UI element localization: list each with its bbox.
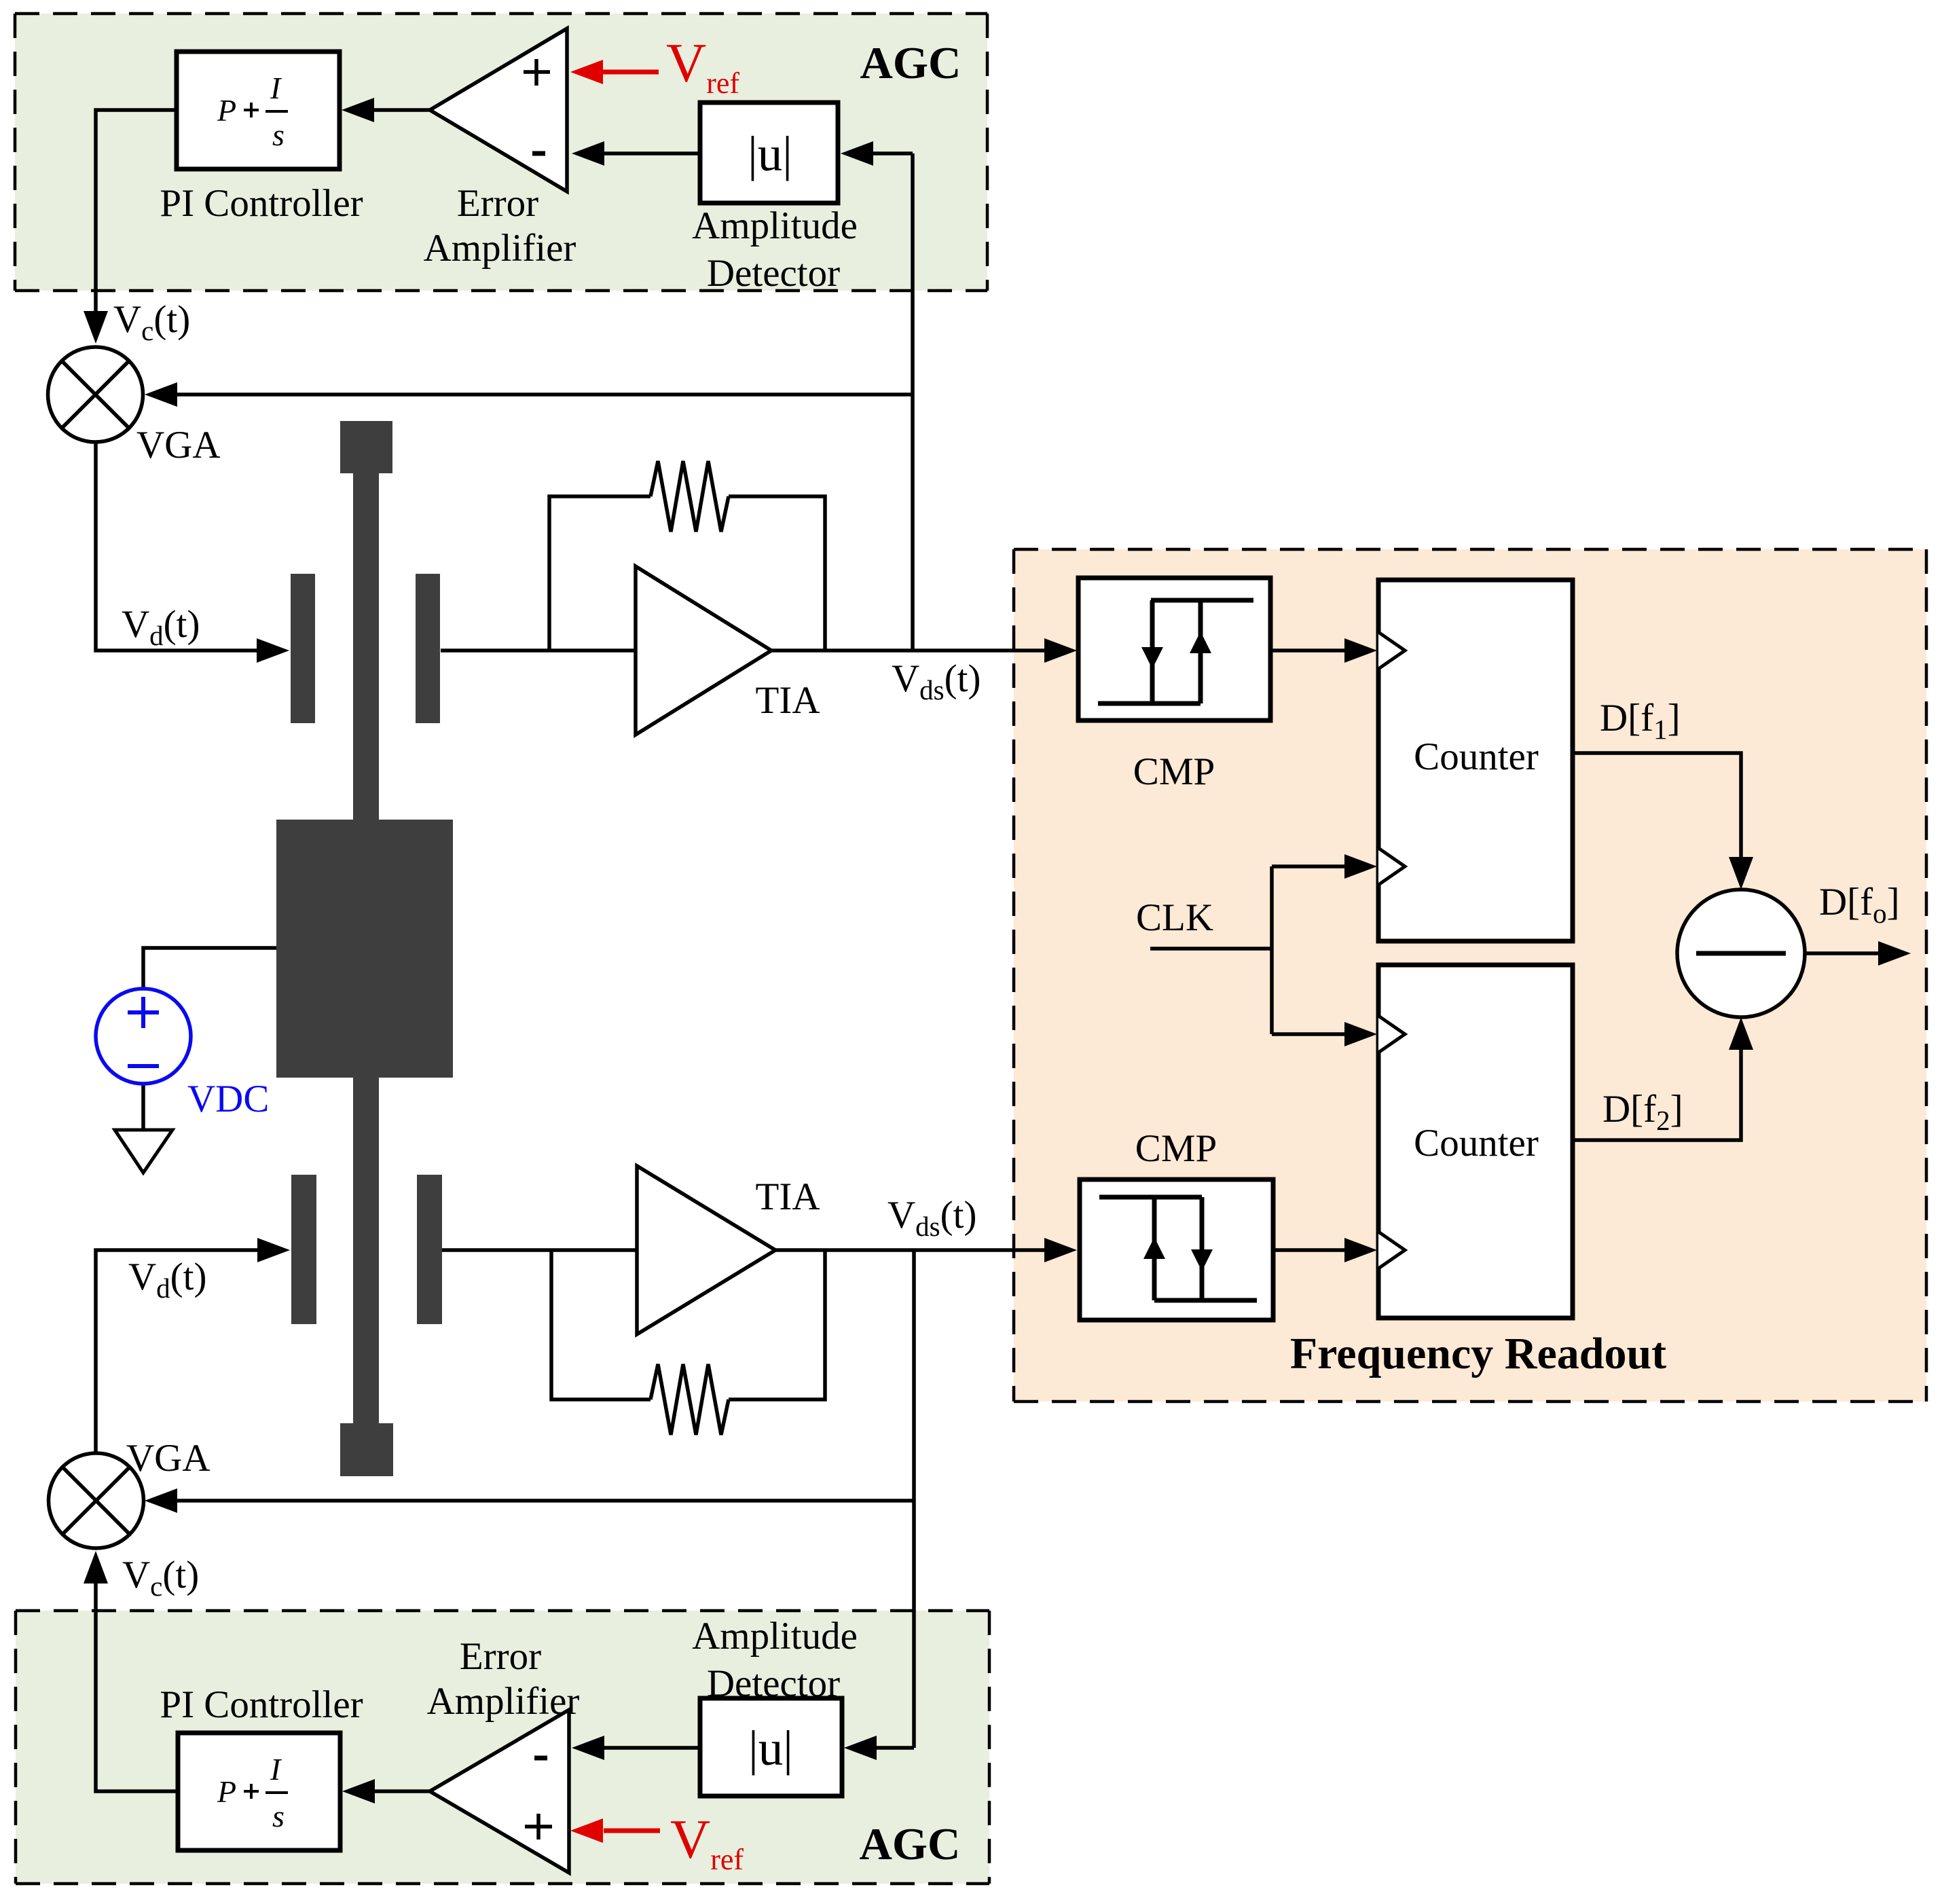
CMP2 comparator box — [1080, 1179, 1273, 1320]
arrowhead TIA1 out into CMP1 — [1044, 638, 1077, 663]
wire TIA2 output to CMP2 — [775, 1248, 1044, 1252]
Vref2 red arrow — [570, 1818, 660, 1843]
arrowhead into VGA2 feedback — [145, 1488, 177, 1513]
svg-text:CMP: CMP — [1135, 1127, 1217, 1170]
error amplifier A2 — [430, 1710, 569, 1873]
A2 minus input sign — [534, 1756, 547, 1761]
svg-text:VDC: VDC — [187, 1078, 269, 1120]
PI2 formula P + I/s — [217, 1752, 288, 1833]
arrowhead Vc(t) into VGA1 — [84, 311, 108, 344]
arrowhead into |u|2 — [844, 1736, 877, 1760]
wire CLK to counter2 — [1272, 1032, 1344, 1036]
AGC block top: dashed green box — [15, 14, 987, 291]
wire D[f2] to subtractor — [1573, 1050, 1741, 1140]
arrowhead Vd(t) into bottom electrode — [257, 1238, 290, 1262]
svg-text:P: P — [217, 93, 236, 128]
resistor R1 zigzag — [651, 461, 729, 532]
wire CMP2 output to counter2 clk — [1273, 1248, 1344, 1252]
resistor R2 zigzag — [651, 1364, 729, 1435]
wire TIA1 feedback left — [549, 496, 651, 651]
arrowhead CMP2 out into counter2 — [1344, 1238, 1377, 1262]
wire TIA1 feedback right — [729, 496, 825, 651]
wire CMP1 output to counter1 clk — [1270, 648, 1344, 653]
error amplifier A1 — [430, 29, 567, 191]
wire TIA2 feedback left — [551, 1250, 651, 1399]
CMP1 hysteresis symbol — [1098, 600, 1253, 703]
svg-text:s: s — [272, 117, 285, 152]
svg-text:TIA: TIA — [756, 679, 820, 722]
wire sense electrode to TIA2 input — [442, 1248, 637, 1252]
wire D[f1] to subtractor — [1573, 753, 1741, 857]
subtractor node — [1677, 890, 1805, 1017]
svg-text:D[f1]: D[f1] — [1600, 697, 1681, 745]
arrowhead D[fo] output — [1878, 941, 1911, 966]
svg-text:CLK: CLK — [1136, 896, 1213, 939]
arrowhead CLK into counter1 — [1344, 854, 1377, 879]
arrowhead into error amp A1 - input — [572, 141, 604, 166]
wire PI1 output to VGA1 — [96, 110, 177, 311]
A2 plus input sign — [525, 1814, 552, 1839]
svg-text:VGA: VGA — [126, 1437, 210, 1480]
svg-text:Amplifier: Amplifier — [427, 1680, 580, 1723]
arrowhead into PI2 — [342, 1779, 375, 1804]
svg-text:Amplitude: Amplitude — [692, 1615, 858, 1658]
amplitude detector |u|1 box — [700, 103, 838, 203]
counter1 clk pin 2 — [1378, 848, 1405, 885]
wire VGA2 feedback input — [177, 1499, 914, 1503]
svg-text:AGC: AGC — [860, 1819, 961, 1869]
arrowhead Vc(t) into VGA2 — [84, 1551, 108, 1583]
svg-text:PI Controller: PI Controller — [160, 1683, 363, 1726]
arrowhead Vd(t) into top electrode — [257, 638, 289, 663]
svg-text:D[fo]: D[fo] — [1819, 881, 1900, 929]
PI1 formula P + I/s — [217, 71, 288, 152]
wire |u|2 input — [877, 1746, 914, 1750]
ground symbol — [115, 1130, 172, 1173]
counter2 clk pin 2 — [1378, 1232, 1405, 1268]
bottom drive electrode (left) — [291, 1175, 316, 1324]
counter1 clk pin 1 — [1378, 632, 1405, 669]
svg-text:I: I — [270, 71, 282, 105]
svg-text:TIA: TIA — [756, 1175, 820, 1218]
arrowhead into VGA1 feedback — [145, 382, 177, 407]
counter1 box — [1378, 580, 1573, 941]
svg-text:Amplitude: Amplitude — [692, 204, 858, 247]
MEMS beam — [353, 448, 379, 1446]
wire |u|2 output to error amp - input — [604, 1746, 700, 1750]
wire vertical bus node Vds2 — [912, 1250, 916, 1748]
wire sense electrode to TIA1 input — [441, 648, 636, 653]
wire CLK to counter1 — [1272, 864, 1344, 868]
svg-text:Detector: Detector — [707, 1662, 840, 1705]
VGA2 multiplier — [49, 1453, 144, 1548]
svg-text:VGA: VGA — [136, 424, 221, 466]
arrowhead into |u|1 — [841, 141, 873, 166]
svg-text:Frequency Readout: Frequency Readout — [1290, 1329, 1666, 1378]
CMP2 hysteresis symbol — [1099, 1197, 1257, 1300]
arrowhead D[f2] into subtractor — [1729, 1017, 1753, 1050]
wire VDC to ground — [141, 1084, 145, 1130]
svg-text:|u|: |u| — [748, 126, 792, 181]
arrowhead into PI1 — [342, 98, 374, 122]
PI controller box bottom — [178, 1733, 340, 1850]
svg-text:Counter: Counter — [1414, 1122, 1539, 1165]
wire TIA1 output to CMP1 — [771, 648, 1044, 653]
wire CLK vertical — [1270, 866, 1274, 1034]
counter2 box — [1378, 965, 1573, 1318]
svg-text:Counter: Counter — [1414, 735, 1539, 778]
wire error amp A2 output to PI controller — [375, 1789, 430, 1793]
wire PI2 output to VGA2 — [96, 1583, 178, 1791]
arrowhead D[f1] into subtractor — [1729, 857, 1753, 890]
svg-text:s: s — [272, 1799, 285, 1833]
Vref1 red arrow — [570, 60, 659, 84]
A1 plus input sign — [524, 59, 550, 86]
wire error amp A1 output to PI controller — [374, 108, 430, 112]
A1 minus input sign — [532, 151, 545, 156]
wire VGA2 output Vd(t) — [96, 1250, 257, 1453]
svg-text:Error: Error — [457, 182, 538, 225]
wire CLK stub — [1150, 947, 1272, 951]
wire TIA2 feedback right — [729, 1250, 825, 1399]
amplitude detector |u|2 box — [700, 1698, 842, 1796]
MEMS top anchor — [340, 421, 392, 473]
wire D[fo] output — [1805, 951, 1878, 955]
arrowhead CMP1 out into counter1 — [1344, 638, 1377, 663]
wire |u|1 input — [873, 151, 913, 155]
svg-text:P: P — [217, 1774, 236, 1809]
counter2 clk pin 1 — [1378, 1016, 1405, 1052]
svg-text:PI Controller: PI Controller — [160, 182, 363, 225]
wire VDC to mass — [143, 948, 276, 989]
MEMS proof mass — [276, 820, 453, 1078]
top sense electrode (right) — [416, 574, 440, 723]
wire VGA1 feedback input — [177, 392, 913, 397]
MEMS bottom anchor — [340, 1423, 393, 1476]
svg-text:Detector: Detector — [707, 252, 840, 295]
svg-text:|u|: |u| — [748, 1721, 793, 1776]
CMP1 comparator box — [1078, 578, 1270, 720]
arrowhead CLK into counter2 — [1344, 1022, 1377, 1046]
svg-text:AGC: AGC — [860, 38, 961, 88]
svg-text:I: I — [270, 1752, 282, 1787]
Frequency Readout block: dashed orange box — [1014, 549, 1926, 1402]
bottom sense electrode (right) — [417, 1175, 442, 1324]
VDC source — [96, 989, 191, 1084]
TIA2 amplifier — [637, 1166, 775, 1334]
svg-text:CMP: CMP — [1133, 750, 1215, 793]
VGA1 multiplier — [48, 347, 143, 442]
wire VGA1 output Vd(t) — [96, 442, 257, 651]
svg-text:D[f2]: D[f2] — [1602, 1088, 1683, 1136]
AGC block bottom: dashed green box — [16, 1611, 989, 1884]
arrowhead TIA2 out into CMP2 — [1044, 1238, 1077, 1262]
wire vertical bus node Vds1 — [911, 153, 915, 651]
TIA1 amplifier — [636, 566, 771, 735]
svg-text:Error: Error — [460, 1635, 541, 1678]
arrowhead into error amp A2 - input — [572, 1736, 604, 1760]
PI controller box top — [177, 52, 340, 169]
wire |u|1 output to error amp - input — [604, 151, 700, 155]
svg-text:Amplifier: Amplifier — [424, 227, 576, 270]
top drive electrode (left) — [291, 574, 315, 723]
